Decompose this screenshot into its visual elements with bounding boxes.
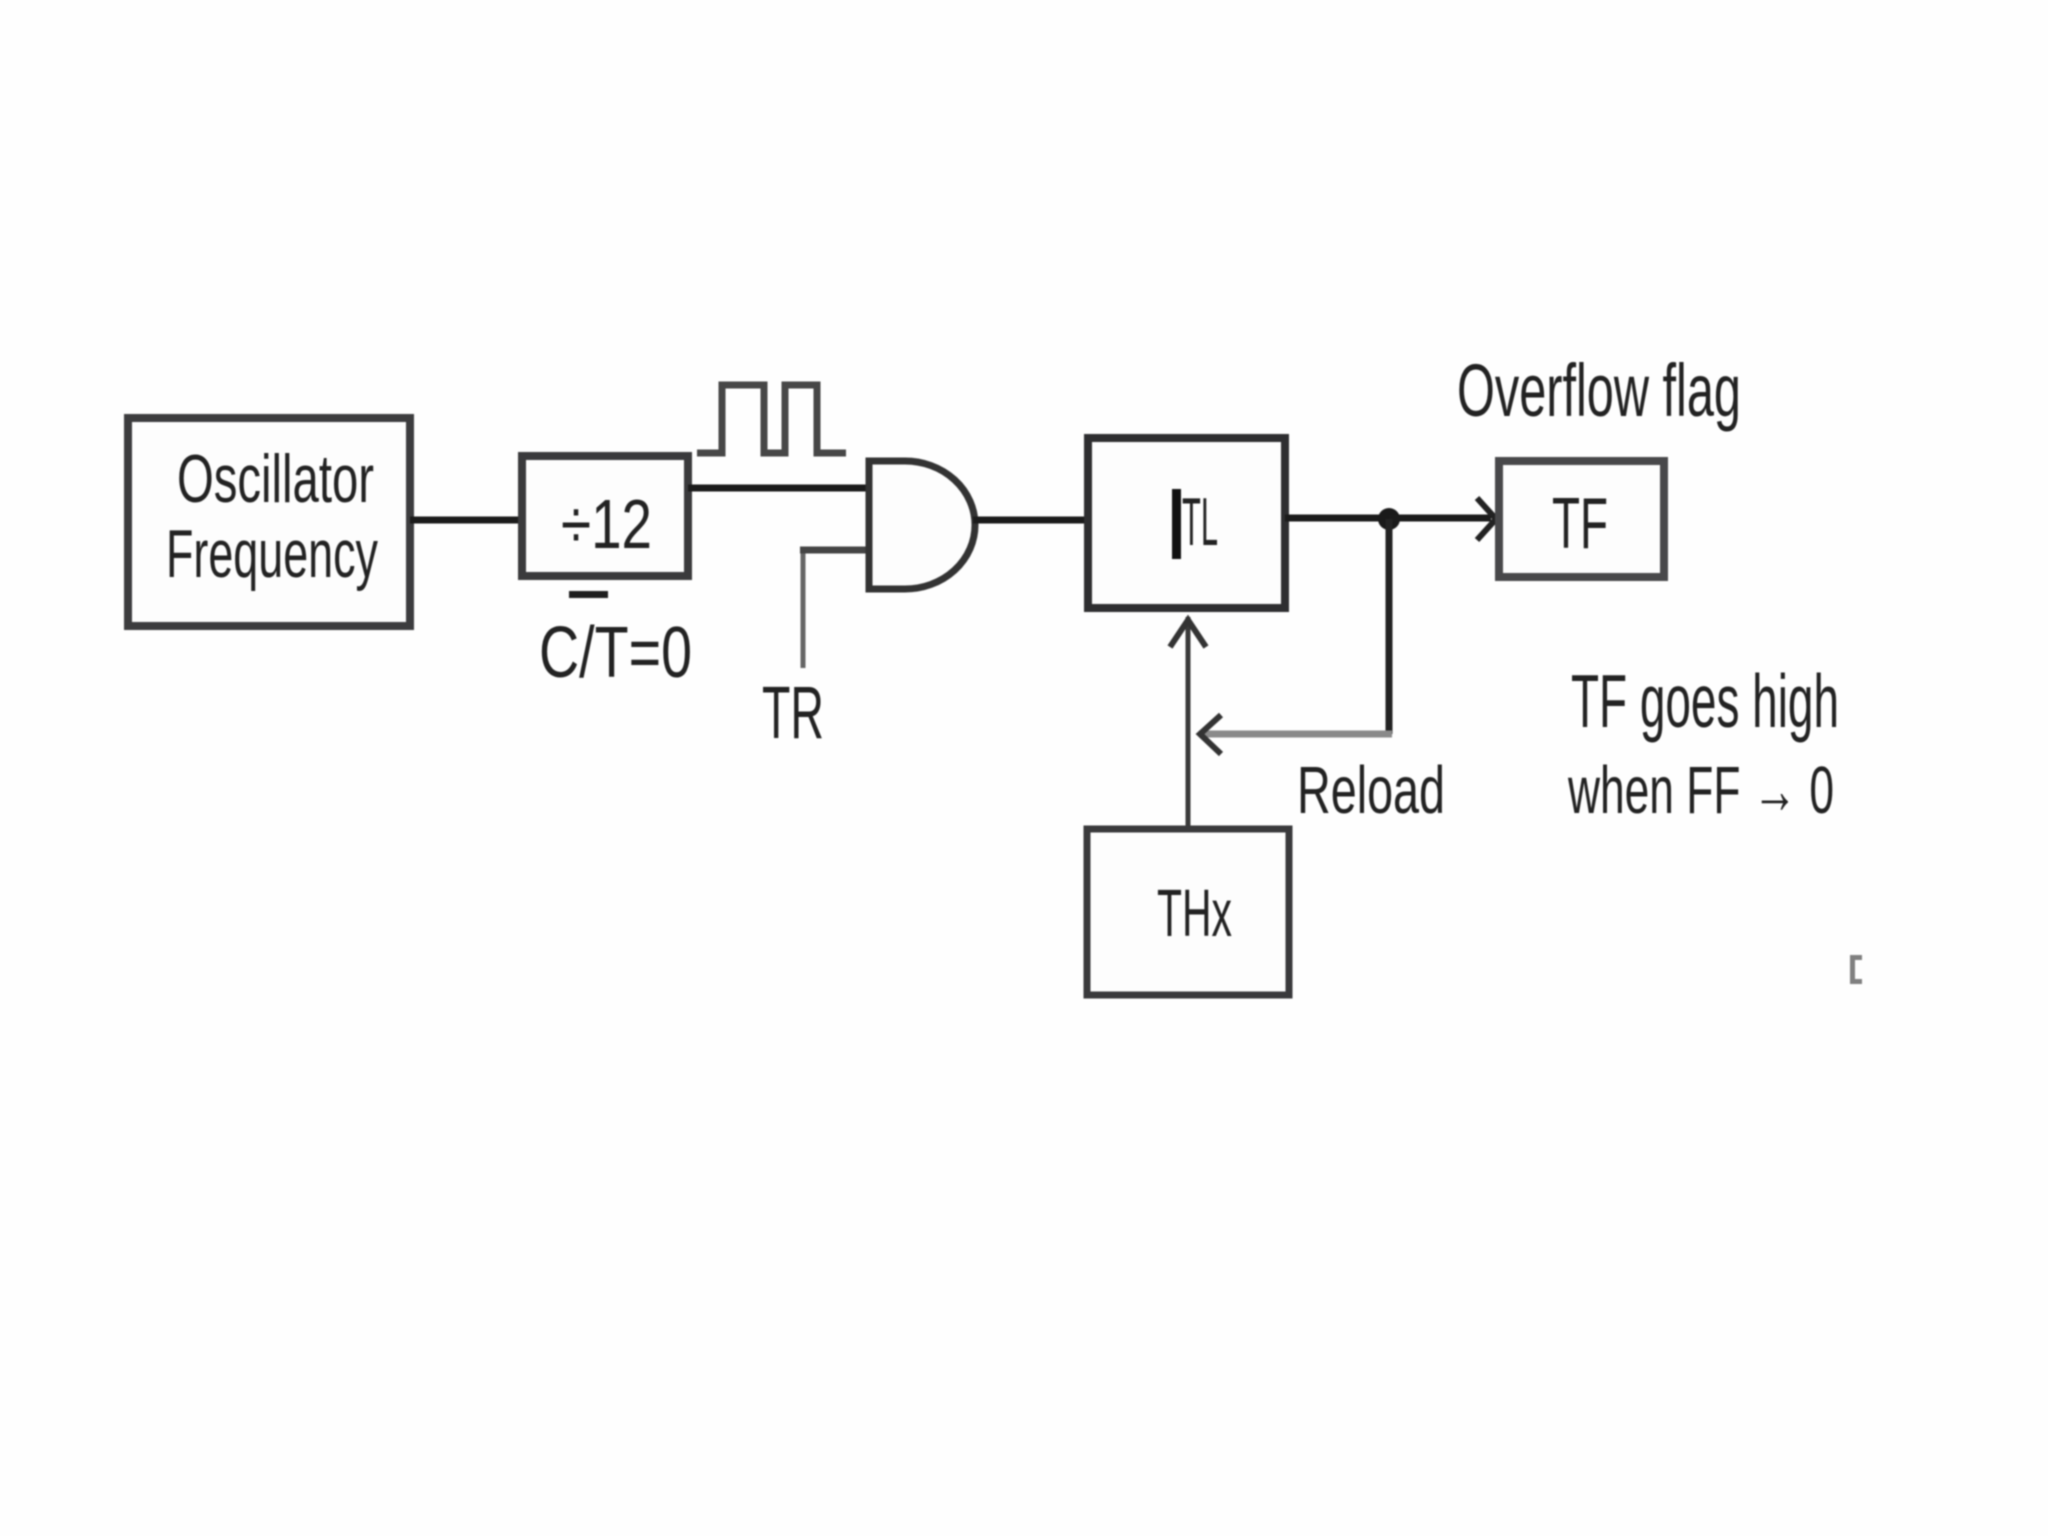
overbar on T of C/T: [569, 591, 608, 598]
svg-text:TF: TF: [1552, 484, 1608, 564]
block Oscillator Frequency: [128, 418, 410, 626]
wire TR horizontal to AND gate lower input: [800, 547, 869, 554]
AND gate U1: [869, 461, 975, 589]
svg-text:TL: TL: [1182, 484, 1218, 560]
svg-text:TF goes high: TF goes high: [1571, 659, 1839, 743]
stray bracket glyph: [1850, 955, 1862, 984]
block TF: [1499, 461, 1664, 577]
svg-text:when FF → 0: when FF → 0: [1567, 753, 1834, 828]
wire divider to AND gate upper input: [688, 485, 869, 492]
junction node: [1378, 508, 1400, 530]
svg-text:TR: TR: [762, 671, 824, 754]
wire AND gate output to TL: [973, 517, 1088, 524]
svg-text:C/T=0: C/T=0: [539, 613, 692, 693]
svg-text:÷12: ÷12: [561, 485, 652, 563]
cursor bar in TL: [1172, 489, 1181, 559]
wire junction down: [1386, 519, 1393, 734]
wire junction to TF: [1389, 515, 1491, 522]
wire TR vertical: [801, 547, 806, 668]
svg-text:THx: THx: [1157, 876, 1232, 951]
arrowhead reload left: [1200, 715, 1221, 754]
arrowhead up into TL: [1170, 620, 1206, 647]
svg-text:Reload: Reload: [1297, 753, 1445, 828]
wire reload horizontal: [1199, 731, 1392, 738]
svg-text:Overflow flag: Overflow flag: [1457, 349, 1741, 432]
block divide-by-12: [522, 456, 688, 576]
wire THx up to TL: [1186, 617, 1191, 826]
block THx: [1087, 829, 1289, 995]
wire TL to junction: [1285, 515, 1392, 522]
arrowhead into TF: [1477, 498, 1496, 540]
svg-text:Frequency: Frequency: [166, 516, 378, 592]
svg-text:Oscillator: Oscillator: [177, 441, 374, 517]
block TL: [1088, 438, 1285, 608]
clock pulse waveform: [697, 385, 846, 453]
wire oscillator to divider: [410, 517, 522, 524]
